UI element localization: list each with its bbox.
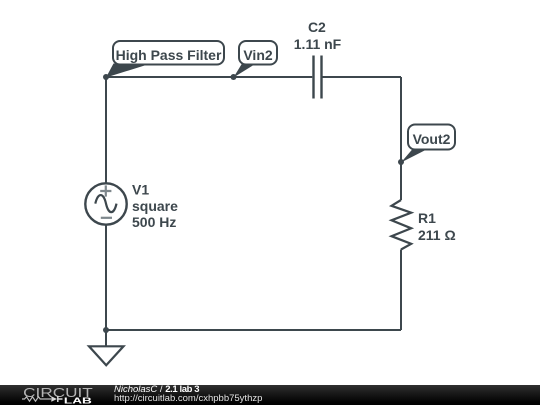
svg-text:R1: R1 <box>418 210 436 226</box>
svg-text:Vout2: Vout2 <box>413 131 451 147</box>
svg-text:C2: C2 <box>308 19 326 35</box>
svg-text:LAB: LAB <box>64 395 92 405</box>
svg-text:Vin2: Vin2 <box>243 47 273 63</box>
svg-text:square: square <box>132 198 178 214</box>
svg-text:500 Hz: 500 Hz <box>132 214 176 230</box>
svg-text:1.11 nF: 1.11 nF <box>294 36 342 52</box>
svg-text:High Pass Filter: High Pass Filter <box>116 47 222 63</box>
svg-text:211 Ω: 211 Ω <box>418 227 456 243</box>
svg-text:V1: V1 <box>132 181 149 197</box>
